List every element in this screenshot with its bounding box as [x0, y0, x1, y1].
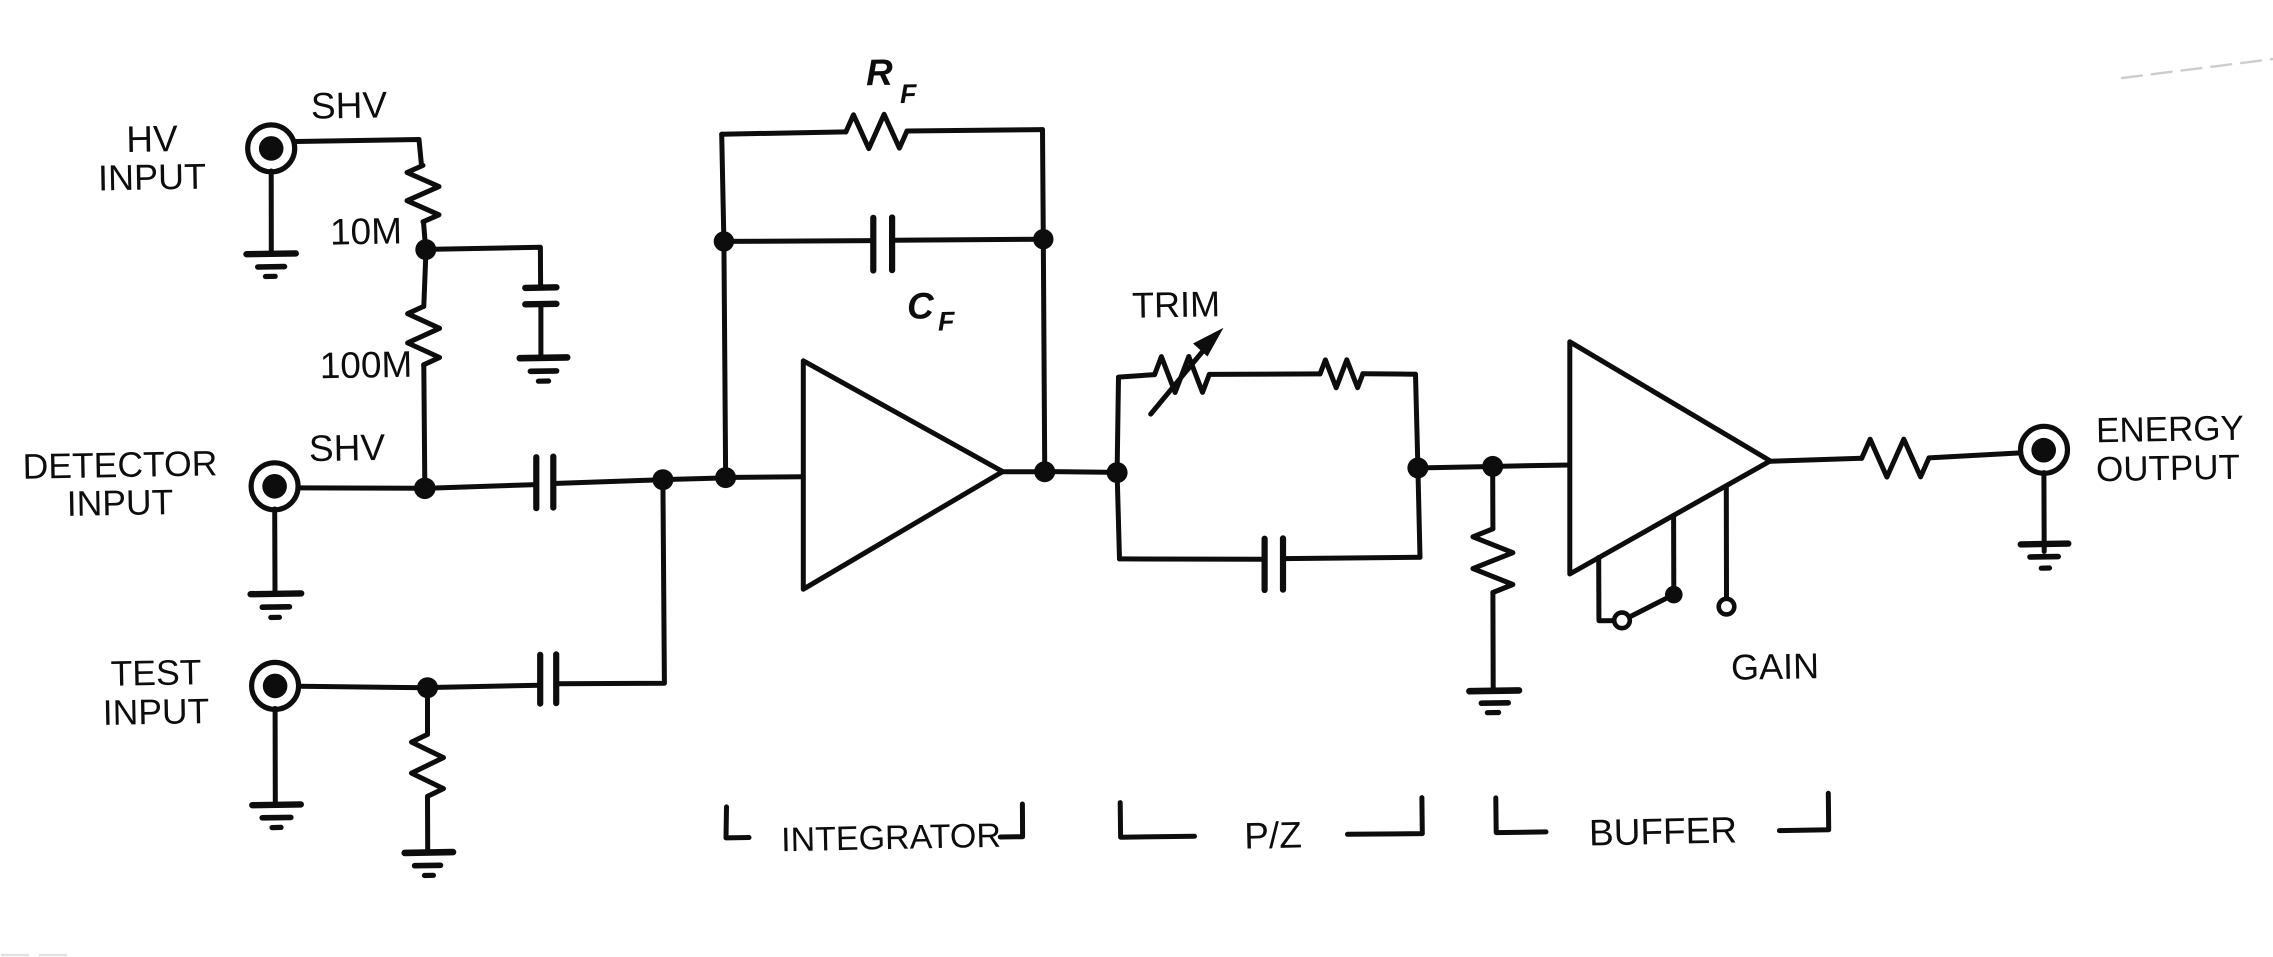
feedback left rail node D up to RF: [722, 134, 726, 470]
capacitor C4 (P/Z): [1265, 538, 1283, 590]
capacitor C1 HV filter (horizontal plates): [525, 287, 556, 304]
P/Z top line with trimmer lead: [1119, 375, 1155, 378]
resistor R5 (to ground): [1473, 529, 1513, 593]
wire R5 to ground: [1490, 593, 1495, 689]
wire trimmer to R4: [1209, 371, 1320, 377]
svg-text:R: R: [866, 52, 894, 93]
resistor RF: [846, 114, 907, 148]
ground under detector connector: [251, 593, 302, 617]
wire detector connector to ground: [272, 509, 277, 591]
svg-text:P/Z: P/Z: [1244, 814, 1302, 856]
svg-text:F: F: [938, 306, 957, 336]
node H junction dot (CF left): [714, 231, 734, 251]
wire node K down to R5: [1490, 476, 1495, 529]
wire R4 to P/Z right rail: [1363, 371, 1416, 377]
feedback right rail down from RF: [1043, 130, 1045, 465]
wire CF right lead: [892, 239, 1043, 240]
ground under R5: [1469, 690, 1519, 712]
svg-text:TEST: TEST: [110, 652, 201, 694]
svg-text:SHV: SHV: [311, 84, 388, 126]
node A junction dot (10M/100M/cap): [415, 239, 436, 260]
P/Z box left rail: [1117, 377, 1119, 559]
resistor R1 10M: [407, 165, 439, 221]
ground under C1: [520, 357, 567, 381]
capacitor C3 test coupling: [540, 654, 556, 703]
wire node K to buffer U2 input: [1502, 465, 1570, 466]
wire node A to HV filter cap: [434, 247, 541, 286]
wire HV connector to ground: [269, 171, 274, 252]
node F junction dot (U1 output / feedback): [1034, 461, 1055, 482]
capacitor C2 detector coupling: [536, 457, 553, 509]
op-amp U2 buffer triangle: [1570, 342, 1770, 574]
scan artifact bottom left: [2, 954, 72, 957]
gain switch stub 3: [1724, 486, 1729, 598]
bracket P/Z left: [1120, 803, 1194, 838]
P/Z box right rail: [1416, 374, 1421, 557]
node B junction dot (detector/100M): [414, 478, 436, 500]
node G junction dot (P/Z input): [1107, 462, 1128, 483]
svg-text:INPUT: INPUT: [102, 691, 209, 733]
wire test connector to node E: [300, 686, 428, 687]
gain switch contact 1 (open circle): [1614, 613, 1630, 629]
ground under output connector: [2021, 544, 2068, 569]
P/Z bottom line right: [1283, 557, 1420, 558]
scan artifact diagonal line top right: [2122, 59, 2273, 78]
wire node C to node D: [672, 478, 726, 480]
node D junction dot (integrator input / feedback tap): [715, 467, 736, 488]
ground under HV connector: [247, 253, 296, 276]
wire detector connector to node B: [299, 485, 425, 490]
wire R3 to ground: [425, 796, 430, 849]
wire C2 to node C: [553, 480, 663, 484]
wire node E to test coupling cap C3: [437, 685, 540, 687]
wire HV connector to 10M resistor top: [296, 140, 422, 166]
wire node F to P/Z input node G: [1054, 469, 1117, 475]
wire 100M bottom to detector line node B: [424, 365, 425, 484]
gain switch contact 3 (open circle): [1719, 599, 1735, 615]
wire RF right lead: [907, 130, 1043, 131]
wire C3 up to node C: [556, 480, 664, 684]
connector J2 DETECTOR INPUT (SHV jack): [251, 463, 298, 510]
svg-text:INPUT: INPUT: [98, 156, 207, 199]
resistor R4 (P/Z series): [1320, 360, 1363, 388]
trimmer arrow: [1151, 328, 1224, 414]
wire RF top line left lead: [722, 132, 846, 134]
svg-text:C: C: [907, 285, 936, 326]
node E junction dot (test/resistor): [417, 677, 438, 698]
gain switch stub 2: [1671, 516, 1676, 591]
wire test connector to ground: [273, 709, 278, 803]
wire C1 to ground: [538, 304, 543, 356]
svg-text:SHV: SHV: [309, 427, 386, 469]
connector J3 TEST INPUT (jack): [252, 662, 299, 709]
connector J4 ENERGY OUTPUT: [2021, 426, 2068, 473]
svg-text:BUFFER: BUFFER: [1589, 809, 1738, 853]
gain switch wiper: [1630, 597, 1669, 617]
wire node J to node K: [1428, 467, 1493, 468]
wire R6 to output connector: [1929, 453, 2021, 458]
svg-text:HV: HV: [126, 118, 178, 160]
node C junction dot (detector/test join): [652, 469, 673, 490]
trimmer RV1 TRIM zigzag: [1155, 357, 1210, 393]
node K junction dot (buffer input / R5): [1482, 456, 1503, 477]
svg-text:GAIN: GAIN: [1731, 645, 1820, 688]
svg-text:ENERGY: ENERGY: [2096, 409, 2244, 451]
svg-text:100M: 100M: [319, 344, 412, 387]
wire output connector to ground: [2041, 473, 2046, 552]
bracket INTEGRATOR right: [1000, 804, 1022, 837]
capacitor CF: [873, 218, 892, 271]
wire node D to op-amp U1 input: [735, 474, 803, 480]
ground under test connector: [252, 804, 300, 827]
P/Z bottom line left: [1120, 556, 1265, 561]
wire node B to coupling cap C2: [435, 485, 536, 488]
wire node A to 100M top: [424, 255, 426, 306]
bracket BUFFER left: [1496, 798, 1546, 833]
wire 10M bottom to node A: [424, 222, 426, 247]
connector J1 HV INPUT (SHV jack): [248, 125, 295, 172]
wire U2 output to R6: [1770, 458, 1862, 461]
svg-text:TRIM: TRIM: [1132, 283, 1221, 326]
bracket BUFFER right: [1779, 793, 1828, 830]
svg-text:F: F: [900, 79, 919, 109]
gain switch stub 1: [1599, 558, 1614, 621]
svg-text:10M: 10M: [330, 210, 403, 252]
svg-text:INPUT: INPUT: [66, 482, 173, 524]
wire U1 output to node F: [1003, 469, 1045, 474]
resistor R2 100M: [408, 306, 440, 364]
bracket P/Z right: [1348, 798, 1423, 835]
svg-text:INTEGRATOR: INTEGRATOR: [781, 817, 1002, 860]
gain switch common contact (filled dot): [1665, 586, 1683, 604]
resistor R3 test termination: [412, 734, 444, 796]
wire node E to R3: [425, 698, 430, 735]
ground under R3: [405, 852, 453, 875]
op-amp U1 integrator triangle: [803, 361, 1002, 589]
node I junction dot (CF right): [1033, 229, 1053, 249]
svg-text:OUTPUT: OUTPUT: [2096, 448, 2241, 490]
bracket INTEGRATOR left: [726, 807, 749, 838]
resistor R6 output series: [1862, 439, 1929, 477]
wire CF left lead: [724, 238, 873, 244]
node J junction dot (P/Z output): [1407, 457, 1428, 478]
svg-text:DETECTOR: DETECTOR: [22, 443, 217, 486]
